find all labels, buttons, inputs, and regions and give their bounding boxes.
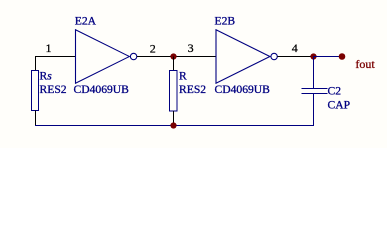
wire: C2 bottom plate down to bottom rail corner: [313, 94, 315, 127]
svg-text:E2A: E2A: [75, 15, 97, 28]
op-amp U2 inverter E2B triangle: [216, 30, 270, 83]
inverter E2A output bubble: [130, 53, 136, 59]
wire: E2A output to E2B input: [137, 56, 216, 58]
wire: top-left horizontal from corner to E2A input: [35, 56, 76, 58]
wire: vertical from R bottom to bottom rail: [173, 111, 175, 126]
svg-text:fout: fout: [355, 57, 375, 71]
wire: left vertical from Rs bottom to bottom rail: [35, 111, 37, 127]
svg-text:RES2: RES2: [40, 83, 67, 96]
wire: E2B output to output node: [277, 56, 313, 58]
wire: vertical from output node down to C2 top plate: [313, 57, 315, 89]
wire: output node to fout terminal: [314, 56, 343, 58]
svg-text:2: 2: [150, 42, 156, 56]
svg-text:1: 1: [46, 41, 52, 55]
svg-text:C2: C2: [328, 84, 342, 97]
resistor R: [170, 71, 178, 112]
wire: bottom rail: [35, 125, 314, 127]
junction node 2/3: [170, 53, 176, 59]
wire: left vertical from corner down to Rs top: [35, 56, 37, 71]
junction node 4 / output: [310, 53, 316, 59]
op-amp U1 inverter E2A triangle: [76, 30, 130, 83]
junction on bottom rail at R: [170, 122, 176, 128]
inverter E2B output bubble: [271, 53, 277, 59]
svg-text:CD4069UB: CD4069UB: [74, 83, 130, 96]
svg-text:3: 3: [188, 41, 194, 55]
wire: vertical from node down to R top: [173, 57, 175, 71]
capacitor C2 bottom plate: [302, 93, 328, 95]
resistor Rs: [32, 71, 39, 111]
svg-text:RES2: RES2: [179, 83, 206, 96]
svg-text:CD4069UB: CD4069UB: [215, 83, 271, 96]
svg-text:Rs: Rs: [40, 69, 53, 82]
svg-text:4: 4: [292, 41, 298, 55]
svg-text:CAP: CAP: [328, 99, 351, 112]
svg-text:E2B: E2B: [215, 15, 236, 28]
svg-text:R: R: [179, 69, 187, 82]
node fout terminal dot: [339, 53, 346, 60]
capacitor C2 top plate: [302, 88, 328, 90]
